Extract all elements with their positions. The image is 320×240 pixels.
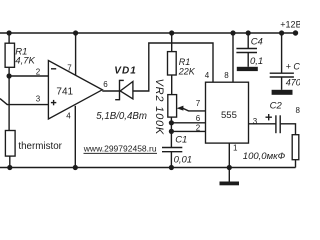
svg-text:2: 2 — [36, 67, 41, 76]
thermistor — [5, 131, 15, 157]
svg-text:6: 6 — [196, 114, 201, 123]
wire pin8 supply — [232, 33, 234, 82]
capacitor C2 — [275, 115, 277, 133]
svg-text:3: 3 — [253, 117, 258, 126]
wire pin7 supply — [75, 33, 77, 75]
resistor R8 partial right edge — [292, 135, 299, 160]
svg-text:7: 7 — [196, 99, 201, 108]
svg-text:2: 2 — [196, 124, 201, 133]
capacitor C4 — [247, 33, 249, 49]
potentiometer wiper arrow — [177, 106, 184, 111]
wire pin4 to ground rail — [74, 106, 76, 168]
node junction thermistor/ground rail — [7, 165, 12, 170]
wire node down to thermistor — [8, 76, 10, 131]
timer U2 555 — [206, 82, 249, 143]
svg-text:8: 8 — [224, 71, 229, 80]
node junction top rail C4 — [246, 30, 251, 35]
svg-text:C1: C1 — [175, 134, 187, 145]
svg-text:0,1: 0,1 — [250, 56, 263, 67]
zener diode VD1 — [120, 82, 133, 99]
potentiometer VR2 100K — [171, 75, 173, 95]
svg-text:www.299792458.ru: www.299792458.ru — [83, 143, 157, 153]
svg-text:4: 4 — [205, 71, 210, 80]
svg-text:thermistor: thermistor — [18, 141, 62, 152]
svg-text:5,1В/0,4Вт: 5,1В/0,4Вт — [96, 111, 147, 122]
wire 555 pin2 — [171, 130, 205, 132]
svg-text:0,01: 0,01 — [174, 155, 193, 166]
node junction top rail R1 22K — [169, 30, 174, 35]
node junction pin1/ground rail — [227, 165, 232, 170]
capacitor C2 polarity plus — [266, 116, 272, 118]
svg-text:VD1: VD1 — [114, 65, 136, 76]
wire C2 to resistor — [280, 124, 295, 135]
svg-text:4,7K: 4,7K — [15, 56, 35, 67]
svg-text:1: 1 — [233, 143, 238, 152]
wire +12V top rail — [0, 32, 296, 34]
svg-text:VR2 100K: VR2 100K — [153, 79, 165, 136]
ground symbol under 555 — [220, 182, 240, 186]
svg-text:C2: C2 — [270, 101, 283, 112]
svg-text:7: 7 — [67, 64, 72, 73]
svg-text:+ C3: + C3 — [286, 62, 300, 72]
svg-text:8: 8 — [296, 106, 301, 115]
node junction pin6 — [169, 120, 174, 125]
node junction top rail R1 — [7, 30, 12, 35]
wire 555 pin3 output — [249, 123, 276, 125]
resistor R1 22K — [171, 33, 173, 52]
node junction top rail pin7 — [73, 30, 78, 35]
wire ground bottom rail — [0, 167, 296, 169]
node junction top rail pin8 — [230, 30, 235, 35]
op-amp U1 741 — [48, 61, 102, 120]
capacitor C1 — [162, 147, 182, 149]
node junction pin4/ground rail — [73, 165, 78, 170]
node junction pin2 — [169, 129, 174, 134]
svg-text:R1: R1 — [179, 57, 191, 67]
svg-text:22K: 22K — [178, 67, 196, 77]
node junction C1/ground rail — [169, 165, 174, 170]
op-amp plus sign — [51, 102, 56, 104]
wire pin1 to ground — [228, 143, 230, 181]
wire op-amp pin3 input from left edge — [0, 99, 48, 105]
svg-text:470,: 470, — [286, 77, 300, 87]
svg-text:741: 741 — [56, 87, 73, 98]
ground symbol under C4 — [237, 67, 258, 71]
wire op-amp pin2 input — [9, 75, 48, 77]
svg-text:+12В: +12В — [280, 19, 300, 29]
svg-text:100,0мкФ: 100,0мкФ — [243, 151, 286, 162]
node terminal +12V — [293, 30, 298, 35]
capacitor C3 — [281, 33, 283, 73]
svg-text:C4: C4 — [251, 37, 263, 48]
svg-text:6: 6 — [103, 80, 108, 89]
wire VR2 bottom to C1 — [170, 117, 172, 147]
resistor R1 4,7K — [8, 33, 10, 43]
svg-text:3: 3 — [36, 95, 41, 104]
op-amp minus sign — [51, 68, 56, 70]
wire op-amp output to 555 reset — [102, 43, 213, 91]
svg-text:4: 4 — [66, 112, 71, 121]
wire 555 pin6 — [171, 122, 205, 124]
node junction top rail C3 — [279, 30, 284, 35]
node junction R1/pin2 — [7, 73, 12, 78]
ground symbol under C3 — [272, 90, 293, 95]
svg-text:555: 555 — [221, 110, 237, 121]
